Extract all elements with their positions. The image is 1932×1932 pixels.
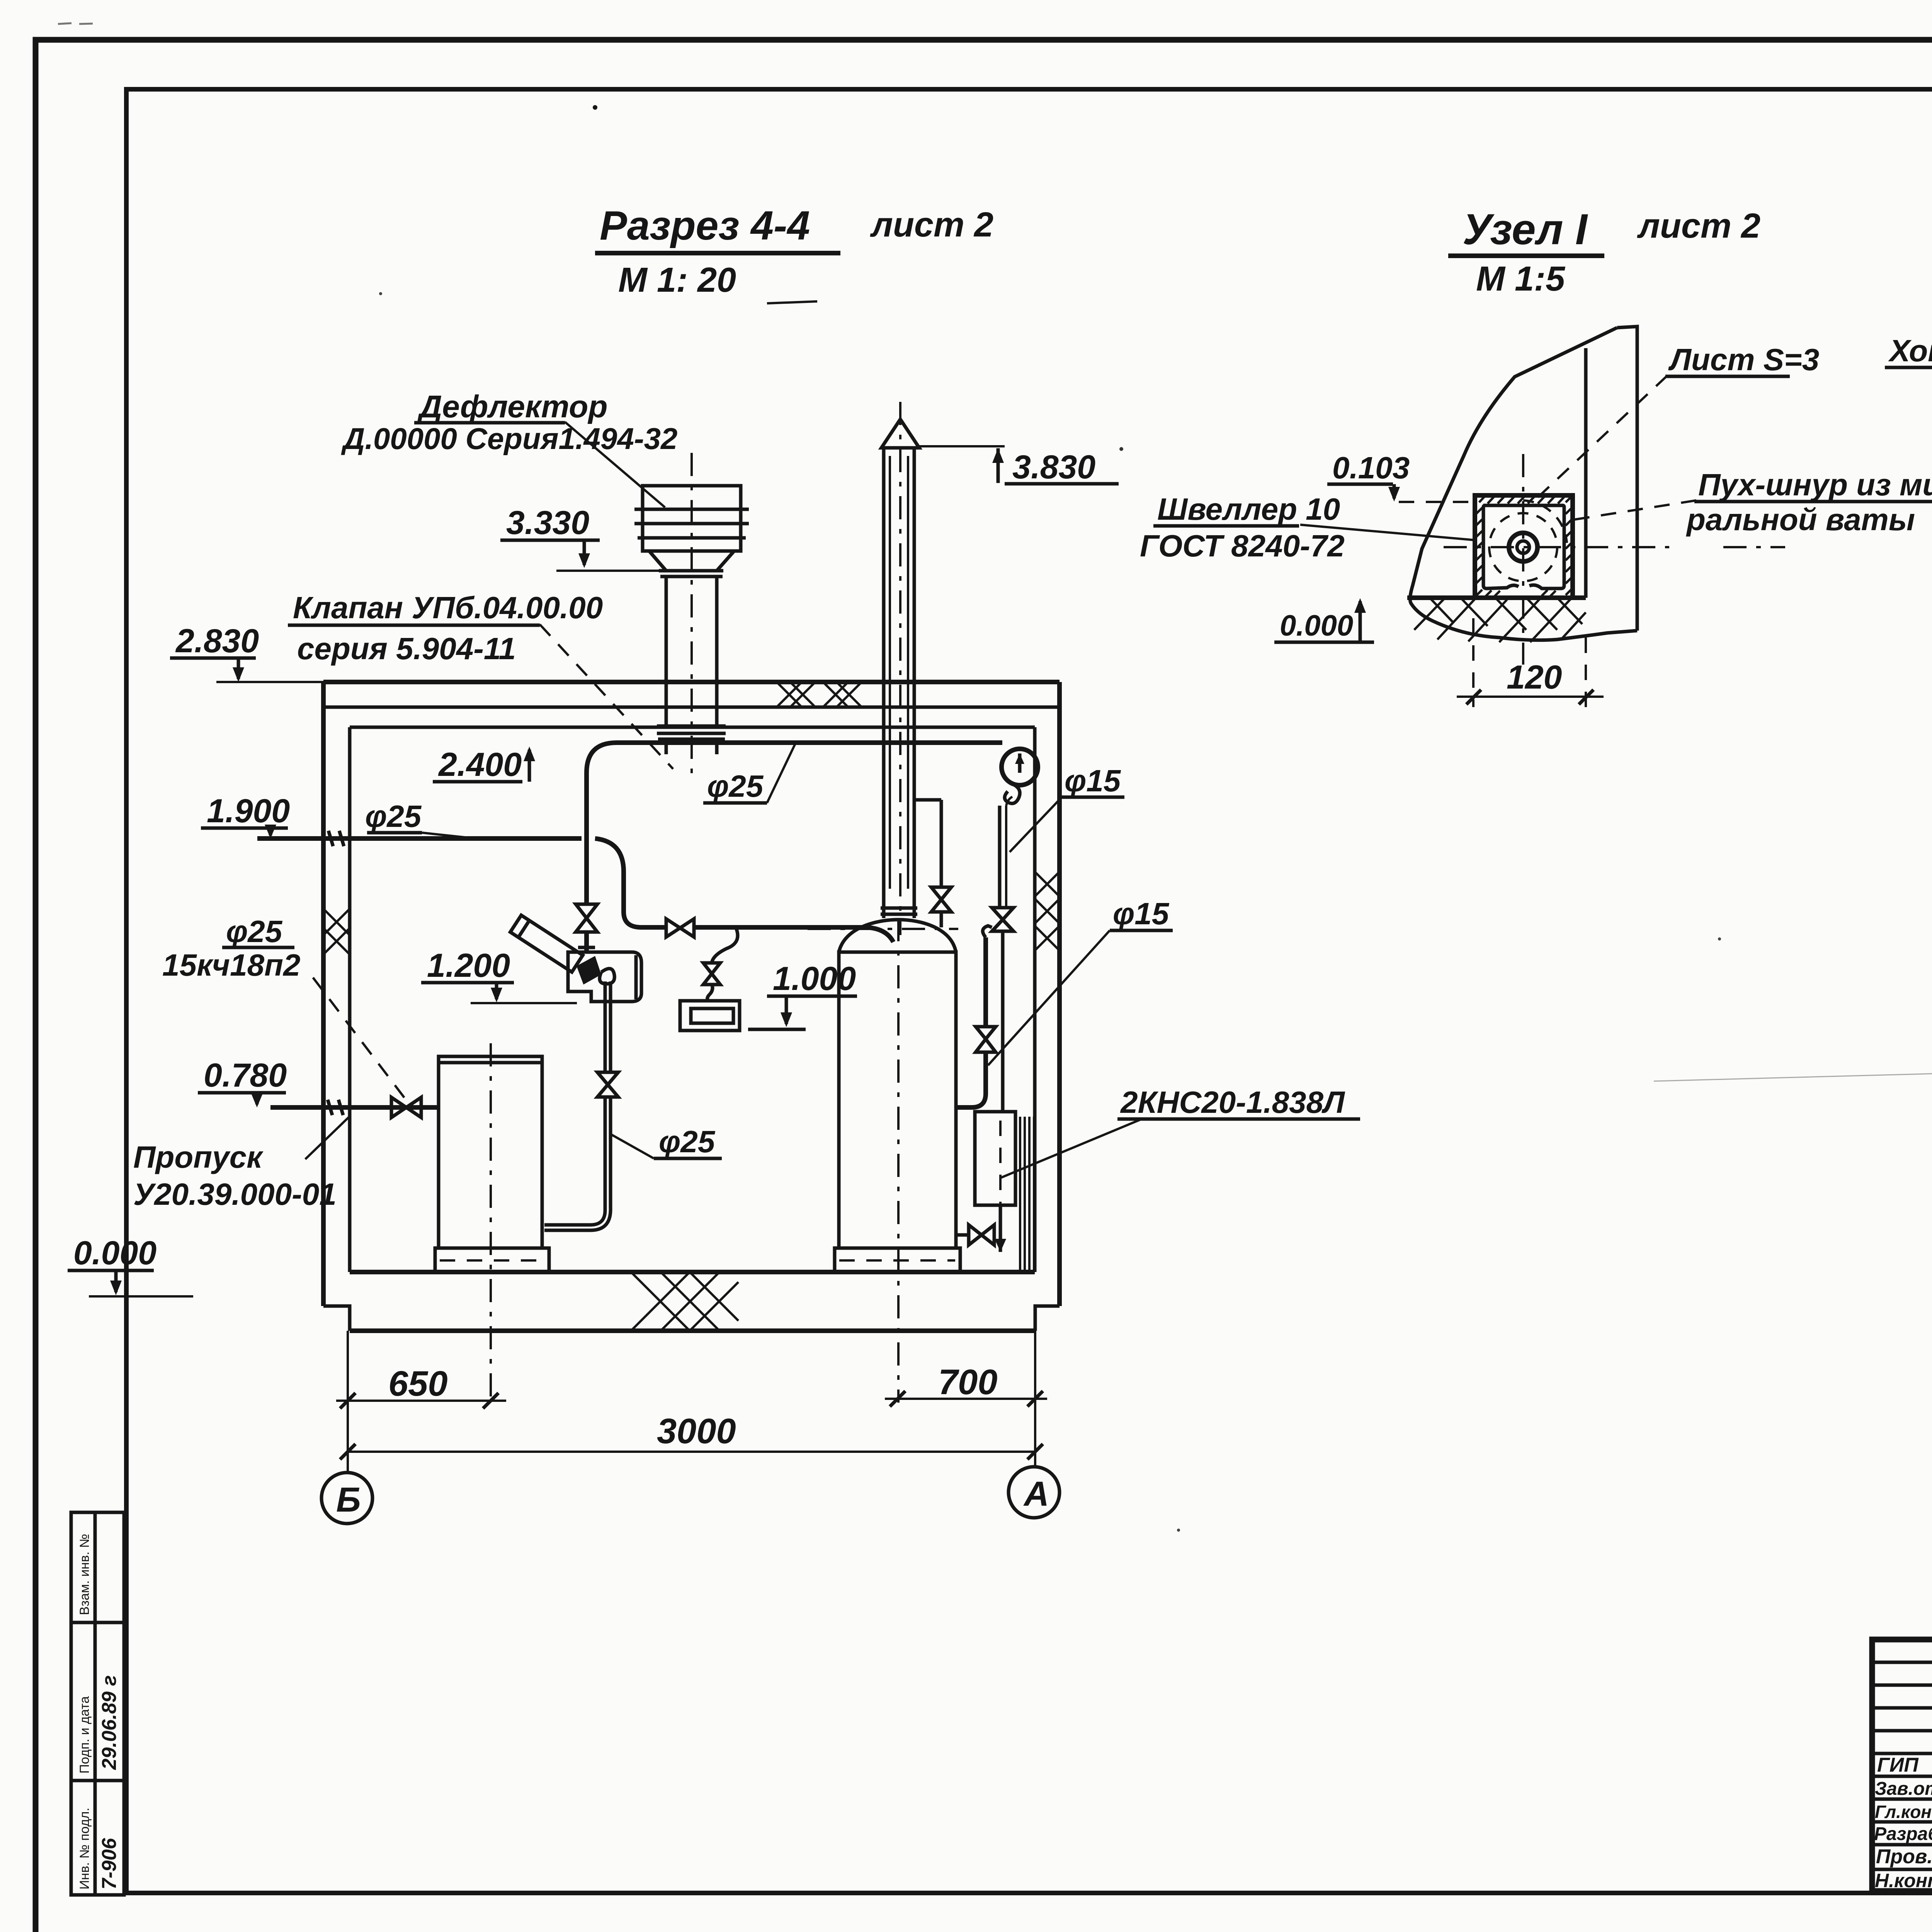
foundation left step <box>323 1306 350 1331</box>
valve on that pipe <box>597 1072 618 1097</box>
svg-text:лист 2: лист 2 <box>1637 207 1760 245</box>
svg-text:φ15: φ15 <box>1065 764 1121 798</box>
svg-text:Клапан УПб.04.00.00: Клапан УПб.04.00.00 <box>293 590 603 625</box>
foundation bottom <box>350 1328 1035 1333</box>
svg-text:У20.39.000-01: У20.39.000-01 <box>133 1177 337 1211</box>
pipe from 2400 level down to dome <box>940 800 943 887</box>
svg-text:ГИП: ГИП <box>1877 1754 1919 1776</box>
left attachment table <box>71 1512 124 1895</box>
svg-text:ГОСТ 8240-72: ГОСТ 8240-72 <box>1140 529 1345 563</box>
valve on riser <box>576 904 597 932</box>
floor line <box>1407 595 1586 600</box>
riser to heater <box>584 773 589 904</box>
svg-text:φ25: φ25 <box>226 914 283 949</box>
axis circle A <box>1009 1467 1060 1518</box>
radiator fins <box>1020 1117 1034 1271</box>
svg-text:φ25: φ25 <box>659 1124 716 1159</box>
duct axis <box>690 453 693 777</box>
dim line 3000 <box>348 1451 1035 1453</box>
vent duct <box>634 453 749 777</box>
left wall inner <box>348 727 352 1272</box>
section 5-5 detail <box>1885 205 1932 642</box>
dim line 650/700 <box>336 1400 506 1402</box>
left wall hatch <box>323 909 350 954</box>
120 dim <box>1472 618 1475 707</box>
svg-text:φ25: φ25 <box>365 799 422 833</box>
heat exchanger block 2KHC <box>956 1112 1034 1271</box>
floor line <box>350 1270 1035 1274</box>
svg-text:2КНС20-1.838Л: 2КНС20-1.838Л <box>1120 1085 1345 1119</box>
heater burner unit <box>510 915 641 1002</box>
collar <box>881 906 917 910</box>
svg-text:А: А <box>1023 1475 1049 1514</box>
svg-text:φ25: φ25 <box>707 769 764 803</box>
deflector neck <box>649 551 734 571</box>
roof slab <box>323 680 1060 684</box>
section 4-4 title <box>595 203 993 303</box>
heater feed down from heater <box>604 981 607 1072</box>
chimney <box>881 402 919 935</box>
3.830 level <box>916 445 1005 447</box>
svg-text:2.400: 2.400 <box>438 746 522 783</box>
ceiling flange of duct (klapan) <box>657 724 726 728</box>
svg-text:Гл.констр: Гл.констр <box>1875 1802 1932 1822</box>
pressure gauge <box>992 749 1038 1112</box>
svg-text:7-906: 7-906 <box>98 1838 121 1889</box>
svg-text:Пропуск: Пропуск <box>133 1140 264 1174</box>
svg-text:3000: 3000 <box>657 1412 736 1451</box>
left wall outer <box>321 682 326 1306</box>
channel box <box>1475 495 1573 598</box>
boiler water pipe <box>914 800 996 1107</box>
svg-text:М 1:5: М 1:5 <box>1476 260 1566 298</box>
svg-text:1.200: 1.200 <box>427 947 510 984</box>
svg-text:29.06.89 г: 29.06.89 г <box>98 1675 121 1770</box>
top flange <box>659 569 723 573</box>
horizontal valve <box>666 919 694 937</box>
annotations sec 4-4 <box>68 389 1360 1296</box>
branch to meter line <box>595 838 666 927</box>
svg-text:Подп. и дата: Подп. и дата <box>77 1696 92 1774</box>
svg-text:ральной ваты: ральной ваты <box>1686 502 1915 537</box>
svg-text:Разрез 4-4: Разрез 4-4 <box>600 203 810 248</box>
meter drop with flex <box>712 928 738 963</box>
impulse line to block <box>998 806 1002 908</box>
svg-text:Б: Б <box>336 1481 361 1519</box>
floor hatch <box>631 1272 738 1331</box>
ceiling line <box>350 726 1035 729</box>
chimney axis <box>899 402 901 935</box>
inlet pipe 1.900 <box>257 836 582 841</box>
svg-text:700: 700 <box>938 1362 998 1402</box>
node I detail <box>1140 205 1932 707</box>
inlet pipe 0.780 <box>270 1105 439 1110</box>
svg-text:Д.00000 Серия1.494-32: Д.00000 Серия1.494-32 <box>341 422 677 456</box>
axis circle B <box>321 1473 372 1524</box>
svg-text:650: 650 <box>388 1364 448 1403</box>
svg-text:3.830: 3.830 <box>1012 449 1095 486</box>
node axes <box>1444 546 1669 548</box>
axes and dimensions <box>321 1331 1060 1524</box>
svg-text:Швеллер 10: Швеллер 10 <box>1157 492 1340 526</box>
boiler <box>808 918 960 1403</box>
svg-text:Дефлектор: Дефлектор <box>417 389 607 424</box>
svg-text:15кч18п2: 15кч18п2 <box>162 948 300 982</box>
svg-text:φ15: φ15 <box>1113 896 1170 931</box>
foundation right step <box>1035 1306 1060 1331</box>
svg-text:Взам. инв. №: Взам. инв. № <box>77 1534 92 1615</box>
svg-text:120: 120 <box>1507 659 1562 696</box>
roof hatch <box>777 682 862 707</box>
right wall hatch <box>1035 872 1060 951</box>
svg-text:Хомут ГОСТ 24139-80: Хомут ГОСТ 24139-80 <box>1888 333 1932 368</box>
svg-text:0.780: 0.780 <box>204 1057 287 1094</box>
gas piping <box>257 743 1002 1230</box>
svg-text:0.103: 0.103 <box>1332 451 1410 485</box>
title block <box>1872 1639 1932 1891</box>
svg-text:0.000: 0.000 <box>73 1235 156 1272</box>
right wall outer <box>1057 682 1062 1306</box>
svg-text:М 1: 20: М 1: 20 <box>618 261 736 299</box>
svg-text:Инв. № подл.: Инв. № подл. <box>77 1808 92 1889</box>
svg-text:Узел I: Узел I <box>1463 205 1588 253</box>
svg-text:лист 2: лист 2 <box>870 206 993 244</box>
bottom drain valve <box>969 1225 994 1245</box>
pipe in channel <box>1509 533 1537 561</box>
gas meter <box>680 1001 740 1031</box>
svg-text:1.000: 1.000 <box>773 960 856 997</box>
main pipe at 2.400 <box>587 743 1002 773</box>
valve on 0.780 <box>391 1097 421 1117</box>
svg-text:Пров.: Пров. <box>1876 1845 1932 1868</box>
deflector <box>643 486 741 551</box>
svg-text:Зав.отд: Зав.отд <box>1875 1779 1932 1799</box>
svg-text:0.000: 0.000 <box>1280 609 1353 642</box>
right wall inner <box>1033 727 1037 1272</box>
svg-text:Разраб: Разраб <box>1874 1824 1932 1844</box>
scan artifacts <box>58 23 1932 1532</box>
svg-text:3.330: 3.330 <box>506 504 589 541</box>
svg-text:Пух-шнур из мине-: Пух-шнур из мине- <box>1698 468 1932 502</box>
svg-text:серия 5.904-11: серия 5.904-11 <box>297 631 516 666</box>
channel hatch <box>1476 496 1571 596</box>
svg-text:2.830: 2.830 <box>175 622 259 660</box>
building shell <box>323 682 1060 1331</box>
svg-text:1.900: 1.900 <box>207 793 290 830</box>
wall fragment outline <box>1410 327 1637 640</box>
ground hatch <box>1414 598 1586 642</box>
svg-text:Н.контр.: Н.контр. <box>1875 1870 1932 1891</box>
left tank <box>435 1043 549 1403</box>
chimney arrow top <box>881 419 919 448</box>
svg-text:Лист S=3: Лист S=3 <box>1668 342 1819 377</box>
pipe to boiler dome <box>694 927 893 942</box>
